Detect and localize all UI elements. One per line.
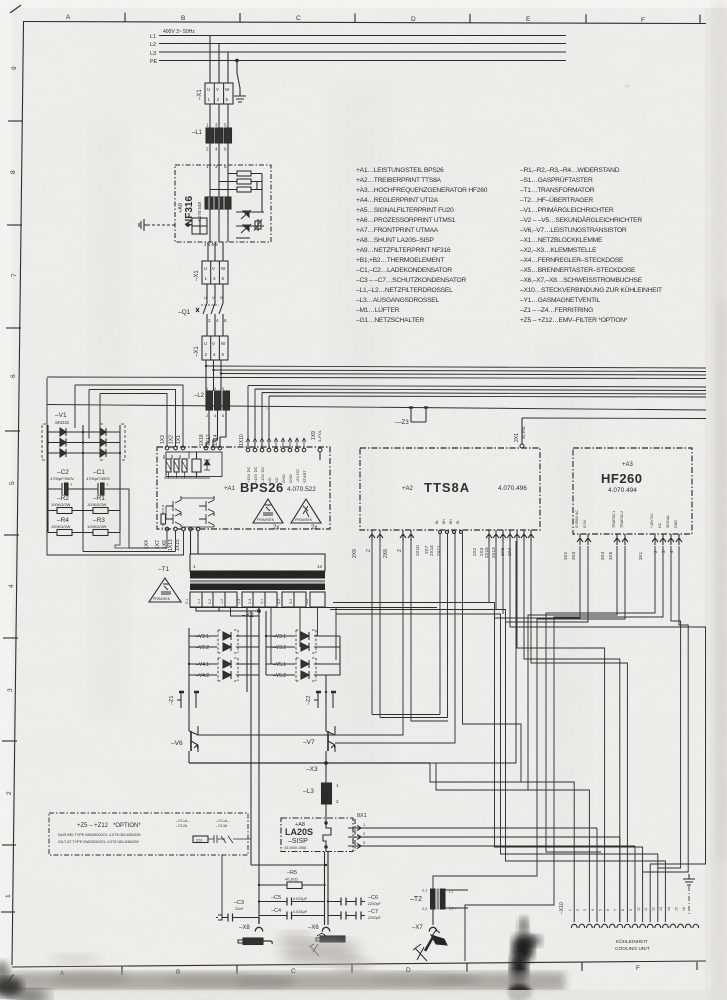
wire sec rail left (188, 628, 190, 708)
wire output left rail (251, 865, 326, 922)
wire bus band A line3 (221, 374, 706, 376)
NF316 varistor (254, 219, 262, 231)
wire X1c to L2 phase1 (205, 360, 207, 391)
wire loop outer (47, 378, 184, 555)
socket X6 (308, 925, 330, 932)
dashed box V3 group (296, 630, 316, 653)
capacitor C5 (259, 895, 324, 906)
wire Q1 to X1c phase2 (214, 318, 216, 336)
wire X1c to L2 phase2 (213, 360, 215, 391)
warning triangle 2 (291, 499, 321, 531)
BPS26 input resistor a (166, 459, 171, 478)
NF316 ground lead (148, 224, 175, 226)
NF316 varistor R a (228, 171, 262, 176)
module A3 HF260 outline (573, 448, 692, 534)
connector 1X18 (199, 434, 208, 450)
wire output mid rail pair (325, 852, 329, 926)
frame tick left 6 (3, 637, 18, 639)
wire L2 (159, 43, 566, 45)
border frame left line (12, 22, 24, 966)
wire 2X2 route (333, 541, 643, 922)
ferrite Z3 (395, 408, 428, 427)
frame tick bottom 6 (696, 962, 698, 970)
connector 1X13 (168, 527, 192, 551)
NF316 wire right drop (257, 174, 262, 213)
scan speckle b (266, 407, 270, 410)
module A9 NF316 labels (178, 164, 227, 247)
socket X7 (412, 925, 437, 932)
dashed box V4 group (218, 658, 238, 681)
capacitor C6 (328, 895, 382, 906)
connector 1X9 (311, 430, 322, 460)
wire bus band A line1 (206, 366, 706, 368)
junction output rail d (327, 900, 329, 902)
wire 8X1 pin1 (361, 827, 597, 829)
wire 2X9.1 down join (372, 534, 440, 715)
diode V4.2 (189, 671, 259, 679)
frame tick left 3 (6, 327, 21, 329)
diode V3.2 (266, 643, 340, 651)
frame tick left 4 (5, 430, 20, 432)
wire HF 3X2 route (495, 546, 581, 618)
switch Q1 (178, 295, 227, 323)
rectifier V1 row1 wire (48, 431, 120, 433)
wire L3 down (325, 804, 327, 818)
torch symbol X7 (413, 930, 447, 961)
junction output rail c (258, 900, 260, 902)
junction diode rail b (325, 691, 327, 693)
resistor R1 (83, 495, 120, 514)
wire dc link bottom via loop (115, 533, 129, 549)
connector 1X6 (162, 527, 185, 549)
frame tick left 7 (2, 740, 17, 742)
wire L1 drop (209, 36, 211, 84)
transformer T1 core bar 2 (190, 584, 325, 591)
diode V1 f (100, 449, 106, 457)
frame tick bottom 3 (351, 965, 353, 974)
frame tick left 1 (8, 120, 23, 122)
connector 2X8 pins (383, 530, 414, 558)
dashed box V2 group (218, 630, 238, 653)
wire X1b to Q1 phase1 (206, 284, 208, 300)
wire L3 drop (227, 52, 229, 83)
module A2 TTS8A outline (360, 448, 540, 530)
diode V1 b (60, 439, 66, 447)
connector 2X9 pins (352, 530, 383, 558)
module A3 labels (601, 462, 643, 494)
wire sec vertical a (258, 616, 260, 647)
connector 3X4 3X5 (600, 511, 628, 560)
wire 2X11 route (430, 534, 574, 923)
plug X8 cable lug (238, 938, 272, 945)
wire gate V7 (335, 532, 455, 743)
wire X2 to X3 crossing (335, 608, 337, 661)
wire sec rail mid (265, 611, 267, 675)
connector 1X7 (155, 527, 177, 549)
wire 2X6 route (517, 541, 605, 922)
wire HF 3X1.3 route (658, 546, 681, 868)
BPS26 relay box (192, 452, 201, 478)
scan streak columns (90, 120, 130, 720)
connector X10 pin numbers (568, 907, 686, 911)
diode V4.1 (189, 660, 259, 668)
wire L3 (159, 51, 566, 53)
node X2 (196, 607, 260, 619)
wire bus single C (47, 405, 706, 411)
transformer T1 core gap (190, 580, 325, 583)
diode V5.1 (266, 660, 340, 668)
connector 1X10 pin name texts (246, 467, 307, 483)
NF316 varistor R c (210, 187, 262, 192)
frame tick bottom 2 (236, 966, 238, 975)
terminal block X1 middle (194, 261, 228, 284)
wire V1 left rail (47, 425, 49, 528)
frame tick left 5 (4, 534, 19, 536)
transistor V7 (303, 708, 335, 763)
rectifier V1 row3 wire (48, 452, 120, 454)
wire 8X1 pin2 (361, 836, 620, 838)
frame tick left 9 (1, 911, 15, 913)
capacitor C2 (48, 469, 83, 495)
wire HF 3X1.4 route (643, 546, 689, 872)
junction bus phase c (220, 372, 222, 374)
resistor R2 (48, 495, 83, 514)
wire T1 tap bus (190, 607, 437, 609)
junction V1 rails (47, 431, 121, 454)
wire option link (233, 838, 251, 840)
wire HF 3X4 route (528, 546, 617, 922)
inductor L1 (192, 123, 232, 152)
wire 2X8.2 link (411, 541, 448, 721)
ground PE (234, 94, 246, 102)
wire L1 to NF316 phase2 (218, 143, 220, 165)
NF316 inner wires phases (210, 165, 228, 197)
connector 8X1 (348, 813, 367, 851)
connector 1X2 (169, 435, 178, 450)
junction diode rail a (188, 663, 190, 665)
wire dc link mid (83, 531, 176, 552)
frame tick left 2 (7, 224, 22, 226)
diode V2.1 (189, 632, 259, 640)
wire 2X3 route (330, 541, 665, 922)
wire 2X9.2 down join (380, 534, 448, 718)
wire 2X15 route (336, 541, 658, 922)
wire V1 right rail (119, 425, 121, 528)
transformer T1 core bar 1 (190, 572, 325, 579)
frame tick bottom 5 (581, 963, 583, 972)
wire NF316 to X1b phase3 (222, 242, 224, 261)
wire HF 3X5 route (433, 546, 625, 889)
scan smudge bottom left corner (0, 961, 50, 1000)
module A9 NF316 dashed box (175, 165, 271, 242)
resistor R4 (48, 517, 83, 536)
frame tick top 1 (124, 13, 126, 22)
diode V1 a (60, 428, 66, 436)
junction output rail a (258, 884, 260, 886)
wire L1 (159, 35, 566, 37)
connector 3X2 3X3 (563, 510, 591, 560)
module A1 BPS26 outline (157, 447, 330, 529)
wire PE branch (237, 61, 240, 95)
connector 1X10 row (239, 434, 306, 452)
frame corner diagonal bottom-left (4, 974, 14, 986)
transistor V6 (171, 708, 198, 763)
wire dc link top (120, 489, 167, 548)
rectifier V1 labels (55, 412, 70, 425)
frame tick top 4 (469, 14, 471, 23)
wire gate V6 (198, 541, 403, 735)
scan smudge bottom band (10, 972, 565, 991)
wire X3 to L3 (325, 763, 327, 783)
junction PE (236, 59, 239, 62)
ground NF316 (139, 219, 148, 231)
rectifier V1 row2 wire (48, 442, 120, 444)
wire NF316 to X1b phase1 (207, 242, 209, 261)
connector 3X1 (638, 513, 682, 560)
wire bus band B line3 (262, 393, 706, 449)
ground right (683, 874, 695, 916)
wire PE (159, 60, 566, 62)
diode V5.2 (266, 671, 340, 679)
frame tick bottom 4 (466, 964, 468, 973)
diode V2.2 (189, 643, 259, 651)
wire output left rail top (251, 611, 259, 865)
wire bottom left riser (221, 855, 223, 918)
wire V1 mid rail (82, 425, 84, 528)
frame corner diagonal top-left (10, 5, 21, 13)
diode V1 d (100, 428, 106, 436)
connector 1X3 (160, 435, 169, 450)
wire bus band A line4 (47, 377, 706, 379)
wire Q1 to X1c phase1 (206, 318, 208, 336)
node X3 rail (189, 762, 430, 773)
BPS26 input resistor c (182, 459, 187, 478)
wire T1 primary feeds (191, 531, 199, 554)
transistor symbol bank (166, 496, 214, 527)
connector 1X14 (213, 434, 222, 450)
wire loop inner1 (75, 385, 183, 446)
capacitor C3 (216, 900, 259, 922)
wire X1 to L1 phase3 (227, 104, 229, 128)
frame tick left 8 (2, 844, 16, 846)
wire X1c to L2 phase3 (220, 360, 222, 391)
scan smudge gray cloud (277, 931, 372, 973)
shunt module A8 LA20S-SISP (281, 818, 353, 852)
ferrite Z1 (169, 692, 199, 708)
border frame bottom line (12, 961, 706, 967)
connector X10 scallop row (571, 924, 698, 928)
connector 2X1 30POL (514, 418, 526, 448)
transformer T1 warning triangle (149, 578, 181, 602)
wire X15 right extension (430, 541, 516, 763)
socket X8 (239, 918, 263, 932)
legend column 1 (356, 167, 488, 324)
transformer T1 secondary taps (185, 592, 325, 607)
wire bus single D (522, 417, 706, 420)
legend column 2 (520, 167, 662, 324)
wire L2 to 1X14 (220, 410, 226, 448)
module A1 labels (224, 480, 316, 495)
transformer T2 (410, 889, 468, 912)
scan streak right edge (712, 0, 727, 1000)
terminal block X1 bottom (194, 336, 228, 360)
capacitor C4 (259, 908, 324, 920)
connector 2X10 2X7 2X14 2X11 pins (415, 519, 463, 556)
wire X1b to Q1 phase3 (222, 284, 224, 300)
wire L2 drop (218, 44, 220, 84)
BPS26 series resistor small (161, 505, 166, 528)
connector 1X1 (176, 435, 185, 450)
warning triangle 1 (253, 499, 283, 531)
ferrite Z2 (306, 692, 336, 708)
junction bus phase b (212, 369, 214, 371)
junction X2 right (265, 635, 267, 637)
label cooling unit (615, 938, 650, 952)
BPS26 input sub-box (166, 452, 222, 477)
wire X1 to L1 phase2 (218, 104, 220, 128)
wire 8X1.1 feed (597, 828, 635, 922)
BPS26 diode d (204, 460, 210, 470)
NF316 varistor R b (219, 179, 262, 184)
inductor L2 (194, 386, 230, 418)
scan speckle a (625, 85, 629, 87)
wire 8X1 pin3 (361, 845, 635, 847)
wire Q1 to X1c phase3 (222, 318, 224, 336)
wire bus band B line1 (248, 386, 706, 449)
BPS26 inner wire row (164, 452, 210, 478)
wire HF 3X1.2 route (465, 546, 663, 961)
module A2 labels (402, 480, 527, 495)
connector 1X17 (206, 434, 215, 450)
junction output rail b (325, 864, 327, 866)
frame tick top 2 (239, 13, 241, 22)
wire tap drops (231, 608, 318, 665)
wire 2X4 route (524, 541, 620, 922)
wire NF316 to X1b phase2 (214, 242, 216, 261)
dashed box V5 group (296, 658, 316, 681)
wire L2 to 1X17 (213, 410, 218, 448)
terminal block X1 top (197, 83, 233, 104)
BPS26 input resistor b (174, 459, 179, 478)
junction NF316 ground (187, 224, 190, 227)
scan smudge above bottom border left (50, 954, 100, 966)
transformer T1 primary box (190, 554, 325, 571)
frame tick top 5 (585, 14, 587, 23)
rectifier V1 dashed outline (42, 424, 125, 460)
wire sec vertical b (246, 607, 248, 692)
wire 2X12 route (531, 541, 627, 922)
inductor L3 (303, 783, 339, 804)
option module Z5-Z12 dashed box (49, 813, 248, 855)
frame tick bottom 1 (121, 967, 123, 976)
wire bus band B line4 (269, 396, 706, 448)
diode V1 e (100, 439, 106, 447)
NF316 phase wires to bridge (210, 209, 228, 242)
wire Z2 feed (326, 636, 340, 692)
wire X1 to L1 phase1 (209, 104, 211, 128)
capacitor C7 (328, 909, 382, 920)
border frame top line (23, 22, 706, 24)
wire HF 3X3 route (506, 546, 589, 622)
connector 1X15 (175, 527, 200, 551)
diode V1 c (60, 449, 66, 457)
wire X1b to Q1 phase2 (214, 284, 216, 300)
wire T2 to X7 (432, 910, 434, 926)
resistor R3 (83, 517, 120, 536)
connector 2X2 2X3 2X15 2X5 2X6 2X4 pins (472, 530, 534, 558)
scan smudge blob halo (517, 918, 529, 938)
wire L2 to 1X18 (206, 410, 209, 448)
scan speckle c (574, 309, 580, 312)
wire L1 to NF316 phase3 (227, 143, 229, 165)
wire L1 to NF316 phase1 (209, 143, 211, 165)
NF316 bridge diode 1 (236, 210, 264, 226)
wire bus band A line2 (213, 370, 706, 372)
frame tick top 6 (699, 15, 701, 24)
frame tick top 3 (354, 13, 356, 22)
wire loop inner2 (89, 390, 176, 447)
wire HF 3X1.1 route (546, 546, 655, 852)
paper edge shading (0, 0, 12, 1000)
junction bus phase a (205, 365, 207, 367)
plug X6 cable lug (309, 933, 345, 956)
wire V1 grid bottom (48, 528, 120, 533)
connector 1X4 (144, 527, 169, 549)
wire 2X5 route (510, 541, 706, 922)
capacitor C1 (83, 469, 120, 495)
NF316 filter choke block (205, 197, 231, 209)
NF316 bridge diode 2 (236, 224, 251, 238)
wire loop inner3 (100, 394, 167, 450)
wire bus band B line2 (255, 389, 706, 448)
resistor R5 (259, 870, 326, 889)
NF316 terminal strip (192, 218, 207, 234)
scan smudge big blob bottom (510, 916, 542, 1000)
diode V3.1 (266, 632, 340, 640)
